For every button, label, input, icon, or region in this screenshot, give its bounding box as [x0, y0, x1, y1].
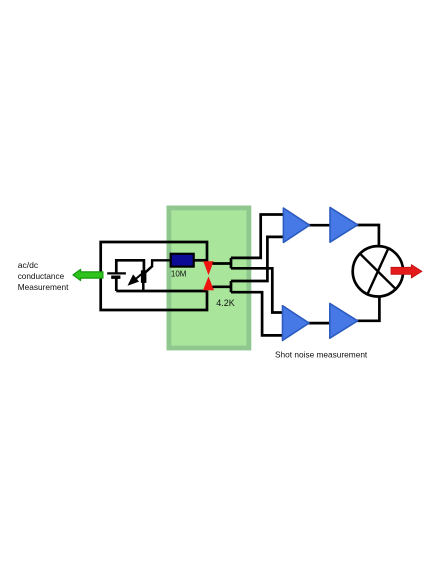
svg-text:conductance: conductance	[18, 272, 65, 281]
red output arrow	[391, 265, 422, 278]
wire junction top to splitter	[213, 262, 232, 265]
splitter lower bar	[230, 281, 233, 292]
outer loop wire (left box)	[101, 242, 207, 310]
wire splitter upper to amp A1 upper input	[231, 215, 284, 258]
amplifier A3	[283, 306, 310, 341]
wire amp A1 to amp A2	[308, 224, 331, 227]
svg-text:10M: 10M	[171, 269, 187, 278]
label 10M	[171, 269, 187, 278]
transistor Q1 emitter arrow	[128, 274, 142, 285]
transistor Q1 base bar	[141, 270, 147, 283]
svg-text:Measurement: Measurement	[18, 282, 69, 292]
label Shot noise measurement	[275, 349, 368, 359]
tunnel junction top triangle	[203, 261, 213, 275]
battery B1 bottom lead	[115, 277, 118, 291]
splitter upper bar	[230, 258, 233, 268]
wire resistor to junction node	[194, 259, 207, 262]
battery B1 long plate	[107, 272, 126, 274]
mixer M1 circle	[353, 246, 403, 296]
battery B1 short plate	[111, 276, 120, 279]
wire amp A3 to amp A4	[308, 322, 332, 325]
inner bottom wire (battery minus to junction bottom)	[116, 290, 207, 293]
transistor Q1 collector wire to resistor	[146, 260, 171, 272]
wire splitter lower to amp A1 lower input	[231, 237, 284, 281]
transistor Q1 bottom stem	[142, 283, 145, 292]
mixer M1 cross diagonal 2	[367, 248, 388, 295]
label ac/dc conductance Measurement	[18, 260, 69, 292]
resistor 10M	[171, 254, 194, 267]
green region (cryostat box)	[169, 208, 249, 348]
inner top wire (battery plus to transistor base)	[116, 260, 144, 270]
wire junction bottom to splitter	[213, 285, 232, 288]
wire amp A2 to mixer top	[357, 225, 379, 246]
wire splitter lower to amp A3 lower input	[231, 292, 283, 335]
battery B1 left lead	[115, 259, 118, 273]
svg-text:Shot noise measurement: Shot noise measurement	[275, 349, 368, 359]
amplifier A1	[283, 208, 309, 242]
svg-text:ac/dc: ac/dc	[18, 260, 39, 270]
amplifier A4	[330, 303, 358, 338]
mixer M1 cross diagonal 1	[360, 253, 396, 289]
green measurement arrow	[73, 269, 103, 280]
wire amp A4 to mixer bottom	[357, 297, 380, 321]
svg-text:4.2K: 4.2K	[216, 298, 235, 308]
label 4.2K	[216, 298, 235, 308]
tunnel junction bottom triangle	[203, 276, 214, 290]
wire splitter upper to amp A3 upper input	[231, 268, 283, 312]
amplifier A2	[330, 207, 358, 242]
